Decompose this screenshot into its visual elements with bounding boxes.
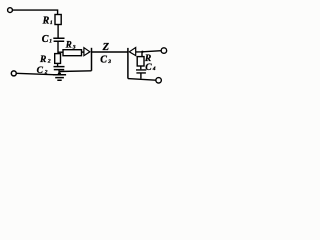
capacitor C4: [136, 70, 146, 73]
wire R to C4: [140, 66, 142, 69]
svg-text:1: 1: [50, 20, 53, 26]
svg-text:3: 3: [72, 45, 76, 51]
wire junction down to R: [141, 52, 143, 57]
wire R3 to diode D1: [82, 51, 84, 53]
junction node above R: [141, 51, 143, 53]
capacitor C1: [53, 38, 64, 41]
wire C1 down to node and R2: [57, 42, 59, 54]
wire bottom-left terminal to ground node: [16, 73, 53, 74]
wire D2 to output terminal (top): [136, 51, 162, 52]
wire node to R3: [58, 51, 63, 53]
ground terminal (bottom-left): [11, 71, 16, 76]
wire Z (node to D2): [92, 51, 128, 53]
wire R1 to C1: [57, 25, 59, 38]
ground symbol: [53, 75, 66, 80]
resistor R3: [63, 50, 82, 56]
diode D2: [129, 48, 135, 56]
wire C4 to bottom rail: [140, 73, 142, 78]
output terminal (bottom-right): [156, 78, 162, 84]
input terminal (top-left): [8, 8, 13, 13]
resistor R: [137, 57, 144, 66]
svg-text:3: 3: [107, 59, 111, 65]
svg-text:1: 1: [49, 38, 52, 44]
resistor R2: [55, 54, 61, 64]
bottom rail of output section: [128, 79, 156, 81]
svg-text:R: R: [39, 55, 46, 65]
svg-text:C: C: [100, 54, 107, 65]
diode D2 cathode bar extended down as left rail: [127, 48, 129, 79]
wire from input terminal right and down to R1: [13, 10, 58, 14]
svg-text:R: R: [65, 40, 72, 50]
ground junction dot: [58, 72, 61, 75]
diode D1: [84, 48, 90, 56]
wire return to ground node: [60, 70, 92, 73]
output terminal (top-right): [161, 48, 167, 54]
svg-text:2: 2: [47, 59, 51, 65]
svg-text:R: R: [42, 15, 50, 26]
resistor R1: [55, 15, 61, 25]
diode D1 cathode bar extended down as wire: [91, 48, 93, 71]
capacitor C2: [54, 67, 65, 70]
svg-text:2: 2: [44, 69, 48, 75]
svg-text:C: C: [37, 66, 44, 76]
svg-text:C: C: [42, 34, 49, 45]
wire R2 to C2: [57, 63, 59, 66]
svg-text:Z: Z: [102, 42, 110, 53]
svg-text:4: 4: [152, 66, 156, 72]
svg-text:C: C: [145, 63, 152, 73]
wire C2 to ground junction: [58, 70, 60, 74]
